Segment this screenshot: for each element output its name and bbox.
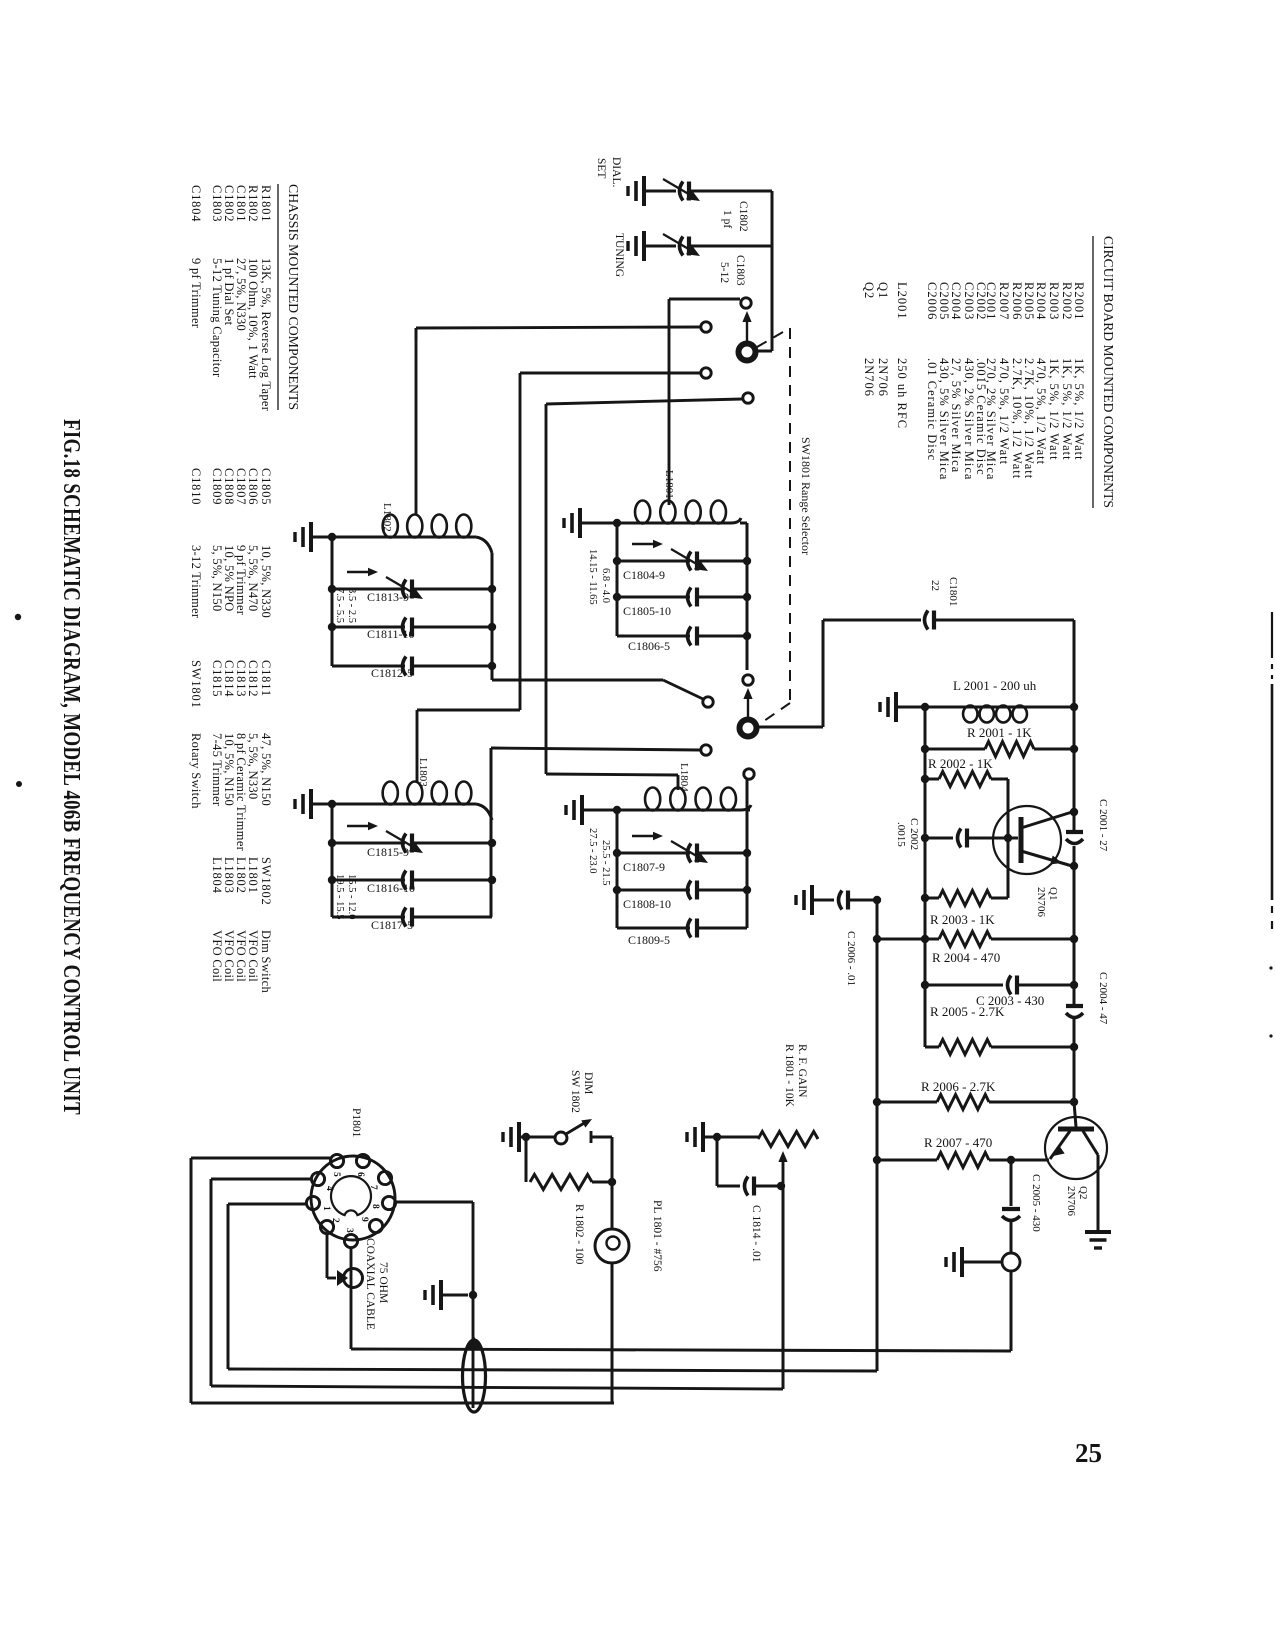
svg-text:470, 5%, 1/2 Watt: 470, 5%, 1/2 Watt <box>997 358 1011 465</box>
svg-text:13K, 5%, Reverse Log Taper: 13K, 5%, Reverse Log Taper <box>259 258 273 412</box>
svg-text:5-12 Tuning Capacitor: 5-12 Tuning Capacitor <box>210 258 224 378</box>
svg-text:R 2007 - 470: R 2007 - 470 <box>924 1135 992 1150</box>
svg-text:3: 3 <box>344 1228 354 1233</box>
svg-text:1: 1 <box>321 1206 331 1211</box>
svg-text:C1816-10: C1816-10 <box>367 881 415 895</box>
svg-text:R 2004 - 470: R 2004 - 470 <box>932 950 1000 965</box>
svg-text:C 2006 - .01: C 2006 - .01 <box>845 931 857 986</box>
svg-text:C1802: C1802 <box>737 201 749 232</box>
svg-text:C 1814 - .01: C 1814 - .01 <box>750 1205 762 1263</box>
svg-text:SW1801: SW1801 <box>189 660 203 709</box>
svg-text:R2007: R2007 <box>997 282 1011 320</box>
svg-text:R. F. GAIN: R. F. GAIN <box>796 1044 808 1098</box>
svg-text:Q2: Q2 <box>862 282 876 299</box>
svg-text:C1808-10: C1808-10 <box>623 897 671 911</box>
svg-text:C2006: C2006 <box>925 282 939 320</box>
svg-text:C1801: C1801 <box>947 577 959 606</box>
svg-text:COAXIAL CABLE: COAXIAL CABLE <box>364 1238 376 1330</box>
svg-text:C1813-9: C1813-9 <box>367 590 409 604</box>
svg-text:L1802: L1802 <box>381 503 393 532</box>
svg-text:CIRCUIT BOARD MOUNTED COMPONEN: CIRCUIT BOARD MOUNTED COMPONENTS <box>1101 236 1116 508</box>
svg-text:2N706: 2N706 <box>876 358 890 397</box>
svg-text:R2002: R2002 <box>1060 282 1074 320</box>
svg-text:Q2: Q2 <box>1077 1186 1089 1199</box>
svg-text:5, 5%, N150: 5, 5%, N150 <box>210 545 224 612</box>
svg-text:C1815: C1815 <box>210 660 224 697</box>
svg-text:VFO Coil: VFO Coil <box>210 930 224 982</box>
svg-text:27.5 - 23.0: 27.5 - 23.0 <box>587 828 598 874</box>
svg-text:Rotary Switch: Rotary Switch <box>189 733 203 809</box>
svg-text:FIG.18 SCHEMATIC DIAGRAM, MODE: FIG.18 SCHEMATIC DIAGRAM, MODEL 406B FRE… <box>58 419 84 1115</box>
svg-text:.01 Ceramic Disc: .01 Ceramic Disc <box>925 358 939 461</box>
svg-text:5-12: 5-12 <box>718 262 730 283</box>
svg-text:C1803: C1803 <box>210 185 224 222</box>
svg-text:2N706: 2N706 <box>1035 887 1047 917</box>
svg-text:2N706: 2N706 <box>1065 1186 1077 1216</box>
svg-text:C1806-5: C1806-5 <box>628 639 670 653</box>
svg-text:1 pf: 1 pf <box>721 210 733 228</box>
svg-text:C 2001 - 27: C 2001 - 27 <box>1097 799 1109 852</box>
svg-text:5: 5 <box>331 1172 341 1177</box>
svg-text:6: 6 <box>355 1172 365 1177</box>
svg-text:L 2001 - 200 uh: L 2001 - 200 uh <box>953 678 1037 693</box>
svg-text:R 2006 - 2.7K: R 2006 - 2.7K <box>921 1079 996 1094</box>
svg-text:C1817-5: C1817-5 <box>371 918 413 932</box>
svg-text:R1801: R1801 <box>259 185 273 222</box>
svg-text:SW1802: SW1802 <box>259 857 273 906</box>
svg-text:1K, 5%, 1/2 Watt: 1K, 5%, 1/2 Watt <box>1060 358 1074 461</box>
svg-text:4: 4 <box>324 1186 334 1191</box>
svg-text:R 2002 - 1K: R 2002 - 1K <box>928 756 993 771</box>
svg-text:C1804-9: C1804-9 <box>623 568 665 582</box>
svg-text:C1811: C1811 <box>259 660 273 697</box>
svg-text:25.5 - 21.5: 25.5 - 21.5 <box>600 840 611 886</box>
svg-text:R 2003 - 1K: R 2003 - 1K <box>930 912 995 927</box>
svg-text:19.5 - 15.5: 19.5 - 15.5 <box>334 874 345 920</box>
svg-text:L1803: L1803 <box>417 758 429 787</box>
svg-text:Q1: Q1 <box>1047 887 1059 900</box>
svg-text:Q1: Q1 <box>876 282 890 299</box>
svg-text:C1805: C1805 <box>259 468 273 505</box>
svg-text:SET: SET <box>595 158 607 178</box>
svg-text:7-45 Trimmer: 7-45 Trimmer <box>210 733 224 807</box>
svg-text:C1812-5: C1812-5 <box>371 666 413 680</box>
svg-text:1K, 5%, 1/2 Watt: 1K, 5%, 1/2 Watt <box>1047 358 1061 461</box>
svg-text:C1809-5: C1809-5 <box>628 933 670 947</box>
svg-text:TUNING: TUNING <box>613 233 625 277</box>
svg-text:7: 7 <box>368 1185 378 1190</box>
svg-text:R 2001 - 1K: R 2001 - 1K <box>967 725 1032 740</box>
svg-text:R 1801 - 10K: R 1801 - 10K <box>783 1044 795 1108</box>
svg-text:9 pf Trimmer: 9 pf Trimmer <box>189 258 203 329</box>
svg-text:C1803: C1803 <box>734 255 746 286</box>
svg-text:PL 1801 - #756: PL 1801 - #756 <box>651 1200 663 1272</box>
svg-text:.0015: .0015 <box>895 822 907 847</box>
svg-text:C 2005 - 430: C 2005 - 430 <box>1030 1174 1042 1232</box>
svg-text:8: 8 <box>370 1204 380 1209</box>
svg-text:250 uh RFC: 250 uh RFC <box>895 358 909 429</box>
svg-text:9: 9 <box>359 1217 369 1222</box>
svg-text:C1805-10: C1805-10 <box>623 604 671 618</box>
svg-text:C 2004 - 47: C 2004 - 47 <box>1097 972 1109 1025</box>
svg-text:DIM: DIM <box>582 1072 594 1094</box>
svg-text:C1811-10: C1811-10 <box>367 627 415 641</box>
svg-text:C1809: C1809 <box>210 468 224 505</box>
svg-text:22: 22 <box>929 580 941 591</box>
svg-text:L1804: L1804 <box>678 763 690 792</box>
svg-text:SW 1802: SW 1802 <box>569 1070 581 1113</box>
svg-text:430, 2% Silver Mica: 430, 2% Silver Mica <box>962 358 976 480</box>
svg-text:6.8 - 4.0: 6.8 - 4.0 <box>600 568 611 603</box>
svg-text:R 1802 - 100: R 1802 - 100 <box>573 1204 585 1265</box>
svg-text:DIAL.: DIAL. <box>610 157 622 187</box>
svg-text:3.5 - 2.5: 3.5 - 2.5 <box>346 588 357 623</box>
svg-text:C2003: C2003 <box>962 282 976 320</box>
svg-text:SW1801 Range Selector: SW1801 Range Selector <box>799 437 813 555</box>
svg-text:C 2002: C 2002 <box>908 818 920 850</box>
svg-text:75 OHM: 75 OHM <box>377 1262 389 1303</box>
svg-text:47, 5%, N150: 47, 5%, N150 <box>259 733 273 806</box>
svg-text:2: 2 <box>330 1218 340 1223</box>
svg-text:R2006: R2006 <box>1010 282 1024 320</box>
svg-text:P1801: P1801 <box>350 1108 362 1138</box>
svg-text:25: 25 <box>1075 1438 1102 1468</box>
svg-text:R 2005 - 2.7K: R 2005 - 2.7K <box>930 1004 1005 1019</box>
svg-text:C1815-9: C1815-9 <box>367 845 409 859</box>
svg-text:Dim Switch: Dim Switch <box>259 930 273 994</box>
svg-text:C1807-9: C1807-9 <box>623 860 665 874</box>
svg-text:CHASSIS MOUNTED COMPONENTS: CHASSIS MOUNTED COMPONENTS <box>286 184 301 410</box>
svg-text:10, 5%, N330: 10, 5%, N330 <box>259 545 273 618</box>
svg-text:2.7K, 10%, 1/2 Watt: 2.7K, 10%, 1/2 Watt <box>1010 358 1024 479</box>
svg-text:L1804: L1804 <box>210 857 224 894</box>
svg-text:C1810: C1810 <box>189 468 203 505</box>
svg-text:14.15 - 11.65: 14.15 - 11.65 <box>587 549 598 605</box>
svg-text:C1804: C1804 <box>189 185 203 222</box>
svg-text:7.5 - 5.5: 7.5 - 5.5 <box>334 588 345 623</box>
svg-text:2N706: 2N706 <box>862 358 876 397</box>
svg-text:3-12 Trimmer: 3-12 Trimmer <box>189 545 203 619</box>
svg-text:R2003: R2003 <box>1047 282 1061 320</box>
svg-text:L2001: L2001 <box>895 282 909 320</box>
svg-text:15.5 - 12.0: 15.5 - 12.0 <box>346 874 357 920</box>
